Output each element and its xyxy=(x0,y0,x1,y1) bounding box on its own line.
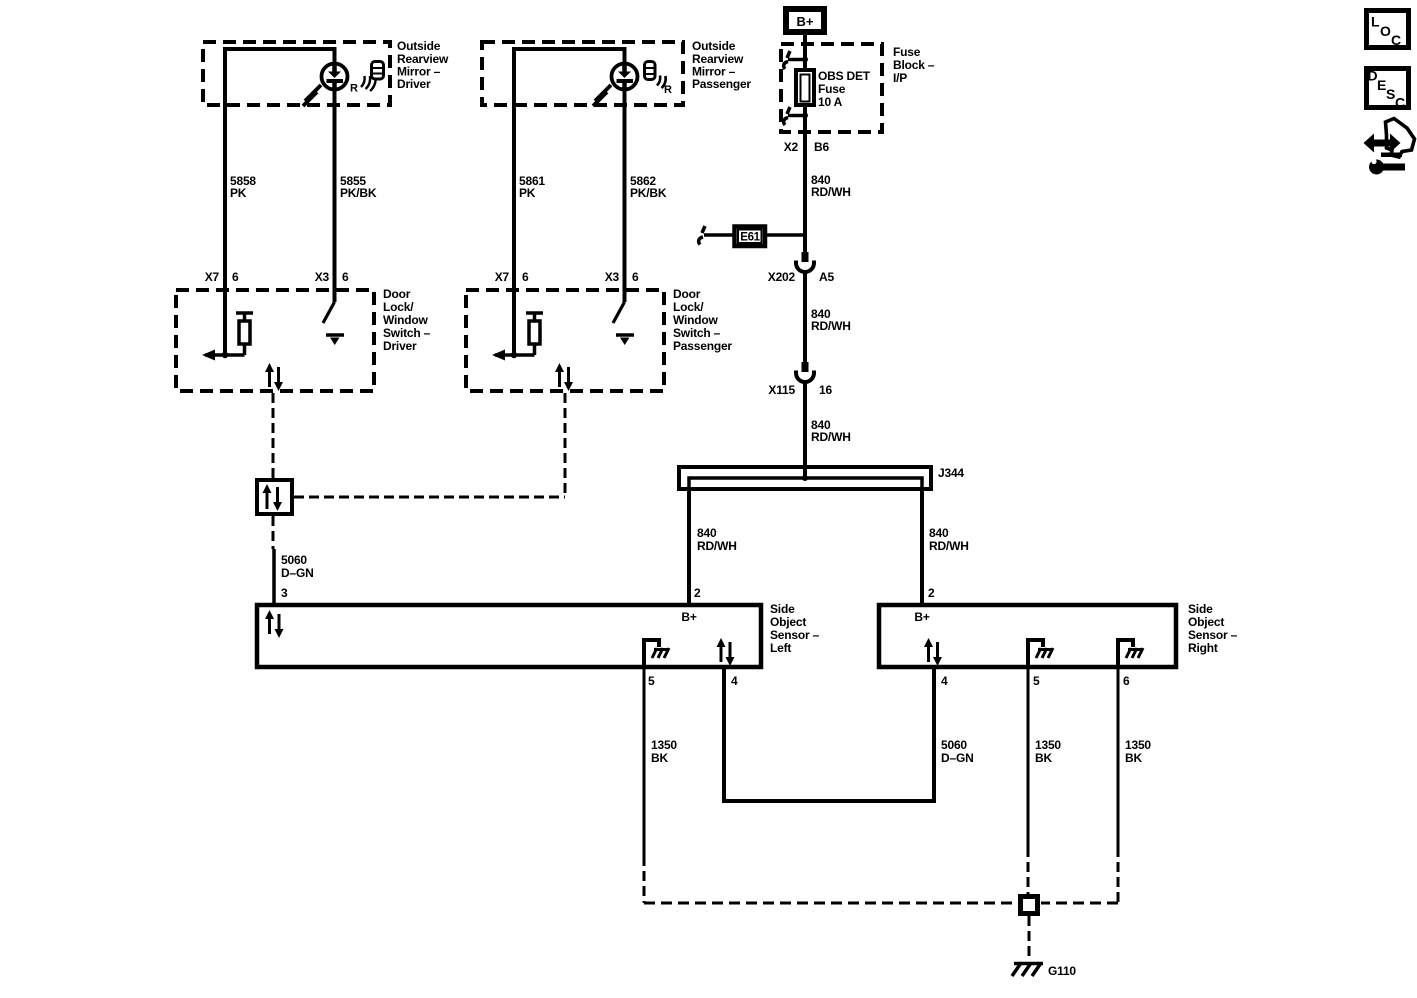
wire: serial data dashed passenger switch drop xyxy=(564,393,567,497)
outside rearview mirror passenger box xyxy=(482,42,683,105)
ground splice junction xyxy=(1021,897,1038,914)
svg-text:PK/BK: PK/BK xyxy=(340,186,377,200)
svg-text:X3: X3 xyxy=(315,270,330,284)
wire: serial data dashed below data box xyxy=(272,516,275,549)
svg-text:6: 6 xyxy=(522,270,529,284)
svg-text:D–GN: D–GN xyxy=(281,566,314,580)
svg-text:1350: 1350 xyxy=(651,738,677,752)
svg-text:2: 2 xyxy=(928,586,935,600)
side object sensor right box xyxy=(879,605,1176,667)
svg-text:X2: X2 xyxy=(784,140,799,154)
LED indicator lamp driver mirror xyxy=(303,62,384,107)
svg-text:Sensor –: Sensor – xyxy=(1188,628,1238,642)
side object sensor left box xyxy=(257,605,761,667)
wire: left pin5 1350 BK solid then dashed to splice xyxy=(643,667,646,856)
svg-text:Door: Door xyxy=(383,287,411,301)
svg-text:O: O xyxy=(1380,23,1391,39)
svg-text:840: 840 xyxy=(929,526,949,540)
svg-text:5060: 5060 xyxy=(941,738,967,752)
svg-text:Window: Window xyxy=(383,313,429,327)
driver switch serial data arrows xyxy=(265,363,283,391)
svg-text:RD/WH: RD/WH xyxy=(811,430,851,444)
wire: serial data dashed driver switch to data box xyxy=(272,393,275,478)
svg-text:Block –: Block – xyxy=(893,58,935,72)
svg-text:Switch –: Switch – xyxy=(383,326,431,340)
fuse block I/P dashed box xyxy=(781,44,882,132)
wire: 5855 drop from LED driver xyxy=(333,85,337,302)
battery B+ symbol xyxy=(786,9,824,32)
svg-text:L: L xyxy=(1371,14,1380,30)
button DESC xyxy=(1367,68,1409,111)
serial data junction box with arrows xyxy=(257,480,292,514)
passenger switch serial data arrows xyxy=(555,363,573,391)
in-line connector X115 pin 16 xyxy=(796,362,814,382)
outside rearview mirror driver box xyxy=(203,42,390,105)
svg-text:6: 6 xyxy=(342,270,349,284)
svg-text:BK: BK xyxy=(1125,751,1142,765)
ground lead E61 xyxy=(699,226,805,246)
svg-text:Door: Door xyxy=(673,287,701,301)
svg-text:Fuse: Fuse xyxy=(893,45,921,59)
right sensor pin4 arrows xyxy=(924,638,942,666)
svg-text:B+: B+ xyxy=(797,14,814,29)
svg-text:3: 3 xyxy=(281,586,288,600)
svg-text:RD/WH: RD/WH xyxy=(811,319,851,333)
svg-text:Passenger: Passenger xyxy=(673,339,732,353)
svg-text:5060: 5060 xyxy=(281,553,307,567)
right sensor pin5 internal ground xyxy=(1028,640,1053,667)
svg-text:840: 840 xyxy=(697,526,717,540)
ground G110 xyxy=(1012,963,1043,976)
svg-text:Object: Object xyxy=(770,615,806,629)
svg-text:C: C xyxy=(1395,95,1405,111)
svg-text:J344: J344 xyxy=(938,466,964,480)
splice pack J344 xyxy=(679,467,931,491)
door lock window switch driver box xyxy=(176,290,374,391)
icon: interactive arrows + wrench xyxy=(1364,119,1415,175)
in-line connector X202 pin A5 xyxy=(796,252,814,272)
wire: left pin4 to right pin4 (5060 D-GN link) xyxy=(724,667,934,801)
svg-text:Lock/: Lock/ xyxy=(383,300,414,314)
driver switch blade to ground xyxy=(323,302,344,345)
svg-text:10 A: 10 A xyxy=(818,95,843,109)
svg-text:OBS DET: OBS DET xyxy=(818,69,871,83)
wire: B+ feed down through fuse to J344 splice xyxy=(803,35,807,478)
LED indicator lamp passenger mirror xyxy=(593,62,672,107)
wire: J344 right branch to right sensor pin 2 xyxy=(920,489,924,605)
svg-text:RD/WH: RD/WH xyxy=(929,539,969,553)
svg-text:I/P: I/P xyxy=(893,71,907,85)
svg-text:Side: Side xyxy=(770,602,795,616)
svg-text:R: R xyxy=(664,84,672,96)
svg-text:PK: PK xyxy=(230,186,247,200)
svg-text:1350: 1350 xyxy=(1035,738,1061,752)
svg-text:5: 5 xyxy=(648,674,655,688)
svg-text:G110: G110 xyxy=(1048,964,1076,978)
svg-text:4: 4 xyxy=(731,674,738,688)
svg-text:C: C xyxy=(1391,32,1401,48)
svg-text:Lock/: Lock/ xyxy=(673,300,704,314)
svg-text:Outside: Outside xyxy=(692,39,736,53)
right sensor pin6 internal ground xyxy=(1118,640,1143,667)
svg-text:6: 6 xyxy=(632,270,639,284)
wire: mirror driver internal top + 5858 drop xyxy=(225,49,335,355)
svg-text:6: 6 xyxy=(1123,674,1130,688)
svg-text:6: 6 xyxy=(232,270,239,284)
svg-text:X115: X115 xyxy=(768,383,795,397)
svg-text:Side: Side xyxy=(1188,602,1213,616)
svg-text:Driver: Driver xyxy=(397,77,431,91)
fuse OBS DET 10A xyxy=(784,51,814,125)
svg-text:S: S xyxy=(1386,86,1395,102)
svg-text:Outside: Outside xyxy=(397,39,441,53)
button LOC xyxy=(1367,11,1409,49)
wire: 5862 drop from LED passenger xyxy=(623,85,627,302)
left sensor pin4 arrows xyxy=(717,638,735,666)
svg-text:RD/WH: RD/WH xyxy=(697,539,737,553)
svg-text:X7: X7 xyxy=(205,270,220,284)
svg-text:Passenger: Passenger xyxy=(692,77,751,91)
passenger switch blade to ground xyxy=(613,302,634,345)
svg-text:X3: X3 xyxy=(605,270,620,284)
svg-text:E61: E61 xyxy=(740,232,760,244)
svg-text:1350: 1350 xyxy=(1125,738,1151,752)
svg-text:A5: A5 xyxy=(819,270,834,284)
svg-text:Driver: Driver xyxy=(383,339,417,353)
wire: dashed splice to G110 xyxy=(1028,916,1031,958)
passenger switch internals: arrow node + resistor xyxy=(492,313,543,361)
wire: J344 left branch to left sensor pin 2 xyxy=(687,489,691,605)
wire: 5060 D-GN solid to left sensor pin 3 xyxy=(272,549,276,605)
svg-text:Switch –: Switch – xyxy=(673,326,721,340)
svg-text:PK/BK: PK/BK xyxy=(630,186,667,200)
svg-text:B6: B6 xyxy=(814,140,829,154)
svg-text:E: E xyxy=(1377,77,1386,93)
svg-text:4: 4 xyxy=(941,674,948,688)
svg-text:Left: Left xyxy=(770,641,791,655)
wire: right pin5 1350 BK solid then dashed to splice xyxy=(1027,667,1030,847)
svg-text:Sensor –: Sensor – xyxy=(770,628,820,642)
svg-text:Right: Right xyxy=(1188,641,1218,655)
left sensor pin3 arrows xyxy=(265,610,284,638)
svg-text:B+: B+ xyxy=(914,610,929,624)
svg-text:Fuse: Fuse xyxy=(818,82,846,96)
wire: mirror passenger internal top + 5861 drop xyxy=(514,49,625,355)
svg-text:X7: X7 xyxy=(495,270,510,284)
wire: right pin6 1350 BK solid then dashed to splice xyxy=(1117,667,1120,847)
svg-text:X202: X202 xyxy=(768,270,796,284)
door lock window switch passenger box xyxy=(466,290,664,391)
driver switch internals: arrow node + resistor xyxy=(202,313,253,361)
svg-text:2: 2 xyxy=(694,586,701,600)
svg-text:Object: Object xyxy=(1188,615,1224,629)
wire: serial data dashed horizontal to data box xyxy=(294,496,565,499)
svg-text:PK: PK xyxy=(519,186,536,200)
svg-text:5: 5 xyxy=(1033,674,1040,688)
svg-text:D–GN: D–GN xyxy=(941,751,974,765)
svg-text:BK: BK xyxy=(651,751,668,765)
svg-text:Window: Window xyxy=(673,313,719,327)
svg-text:R: R xyxy=(350,83,358,95)
svg-text:BK: BK xyxy=(1035,751,1052,765)
left sensor pin5 internal ground xyxy=(644,640,669,667)
svg-text:B+: B+ xyxy=(681,610,696,624)
svg-text:16: 16 xyxy=(819,383,832,397)
svg-text:RD/WH: RD/WH xyxy=(811,185,851,199)
